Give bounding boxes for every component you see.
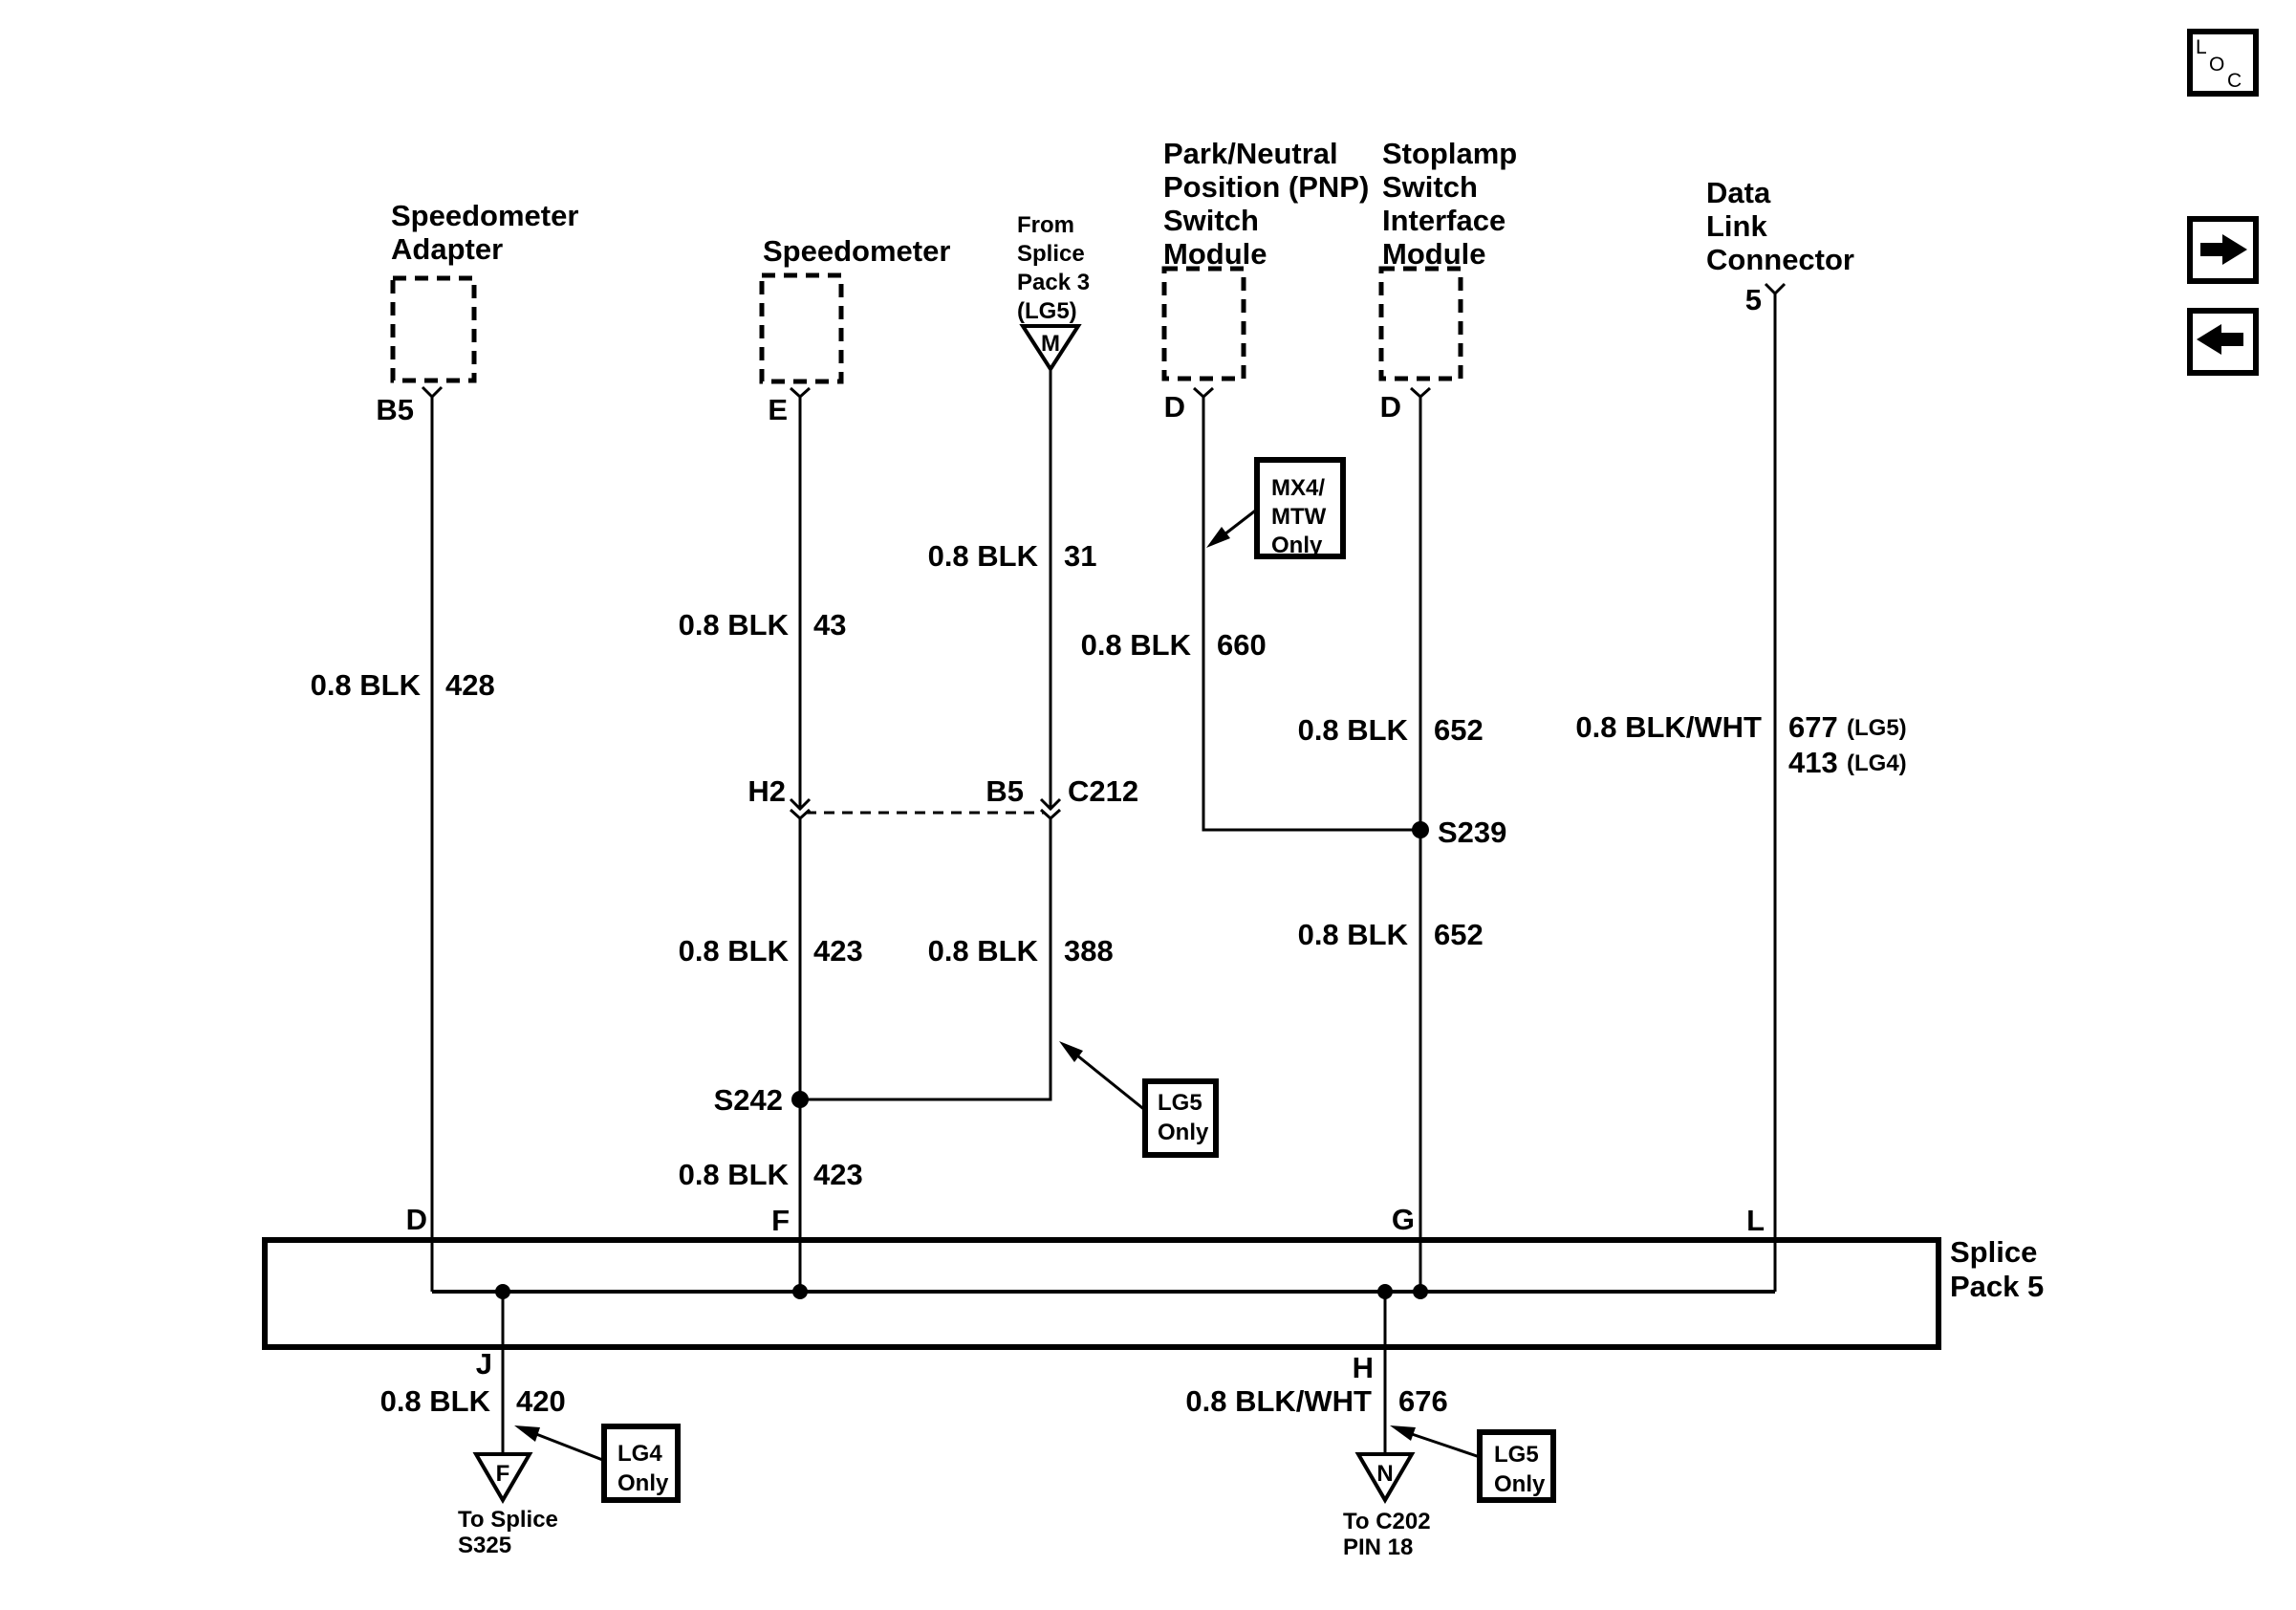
svg-text:Splice: Splice — [1950, 1235, 2037, 1269]
label 0.8 BLK 420 — [380, 1384, 566, 1418]
pin 5 connector Data Link — [1745, 283, 1785, 316]
component label Stoplamp Switch Interface Module — [1382, 137, 1517, 271]
pin D connector Stoplamp — [1380, 388, 1430, 424]
svg-text:F: F — [771, 1204, 790, 1237]
note box LG5 Only middle — [1145, 1081, 1216, 1155]
pin B5 connector — [376, 387, 442, 426]
component label Speedometer Adapter — [391, 199, 578, 266]
wire 677/413 Data Link to Splice Pack L — [1774, 294, 1777, 1292]
splice pack 5 box — [265, 1240, 1939, 1347]
off-page triangle F — [476, 1454, 530, 1500]
svg-text:652: 652 — [1434, 918, 1484, 951]
svg-text:Only: Only — [617, 1470, 669, 1496]
pointer arrow MX4/MTW note to wire 660 — [1206, 509, 1258, 548]
label 0.8 BLK 660 — [1081, 628, 1267, 662]
svg-text:0.8 BLK: 0.8 BLK — [1298, 713, 1409, 747]
svg-text:Module: Module — [1163, 237, 1267, 271]
svg-text:J: J — [476, 1347, 492, 1381]
forward arrow icon — [2190, 219, 2256, 281]
svg-text:N: N — [1376, 1461, 1393, 1487]
svg-text:0.8 BLK: 0.8 BLK — [679, 608, 790, 642]
label From Splice Pack 3 (LG5) — [1017, 212, 1090, 324]
note box LG5 Only bottom — [1480, 1432, 1553, 1500]
splice S239 — [1412, 816, 1506, 849]
pointer arrow LG5 middle note to wire 388 — [1059, 1041, 1146, 1111]
svg-text:D: D — [1380, 390, 1401, 424]
svg-text:Stoplamp: Stoplamp — [1382, 137, 1517, 170]
connector H2 arrowhead — [747, 774, 810, 818]
svg-text:H2: H2 — [747, 774, 786, 808]
svg-text:388: 388 — [1064, 934, 1114, 968]
svg-text:LG4: LG4 — [617, 1441, 662, 1467]
svg-text:B5: B5 — [986, 774, 1024, 808]
svg-text:Link: Link — [1706, 209, 1767, 243]
svg-text:676: 676 — [1398, 1384, 1448, 1418]
svg-text:Only: Only — [1494, 1471, 1546, 1497]
dashed box Stoplamp Switch Interface Module — [1381, 269, 1461, 379]
wire 428 Speedometer Adapter to Splice Pack D — [431, 397, 434, 1292]
svg-text:L: L — [1746, 1204, 1765, 1237]
svg-text:428: 428 — [445, 668, 495, 702]
svg-text:Only: Only — [1158, 1120, 1209, 1145]
svg-text:C: C — [2227, 70, 2242, 92]
svg-text:C212: C212 — [1068, 774, 1138, 808]
label 0.8 BLK 388 — [928, 934, 1114, 968]
svg-text:(LG5): (LG5) — [1017, 298, 1077, 324]
dashed box Speedometer — [762, 275, 841, 381]
wire 423 upper Speedometer H2 to S242 — [799, 818, 802, 1292]
svg-text:Connector: Connector — [1706, 243, 1854, 276]
svg-text:LG5: LG5 — [1494, 1442, 1539, 1468]
svg-text:M: M — [1041, 331, 1060, 357]
note box MX4/MTW Only — [1257, 460, 1343, 558]
svg-text:S242: S242 — [714, 1083, 783, 1117]
label 0.8 BLK 652 lower — [1298, 918, 1484, 951]
component label Data Link Connector — [1706, 176, 1854, 276]
label To C202 PIN 18 — [1343, 1509, 1431, 1560]
svg-text:677: 677 — [1788, 710, 1838, 744]
wire 652 Stoplamp D to Splice Pack G — [1419, 397, 1422, 1292]
svg-text:PIN 18: PIN 18 — [1343, 1534, 1413, 1560]
svg-text:MTW: MTW — [1271, 504, 1327, 530]
svg-text:F: F — [496, 1461, 510, 1487]
svg-text:652: 652 — [1434, 713, 1484, 747]
label 0.8 BLK 423 lower — [679, 1158, 863, 1191]
svg-text:Module: Module — [1382, 237, 1486, 271]
svg-text:S325: S325 — [458, 1533, 511, 1558]
svg-text:0.8 BLK/WHT: 0.8 BLK/WHT — [1575, 710, 1762, 744]
svg-text:0.8 BLK: 0.8 BLK — [928, 934, 1039, 968]
pin D connector PNP — [1164, 388, 1213, 424]
LOC legend box — [2190, 32, 2256, 94]
svg-text:H: H — [1353, 1351, 1374, 1384]
svg-text:0.8 BLK: 0.8 BLK — [1081, 628, 1192, 662]
label 0.8 BLK 428 — [311, 668, 495, 702]
svg-text:423: 423 — [813, 934, 863, 968]
dashed box PNP Switch Module — [1164, 269, 1244, 379]
off-page triangle N — [1358, 1454, 1412, 1500]
svg-text:31: 31 — [1064, 539, 1096, 573]
wire 43 Speedometer E to H2 — [799, 397, 802, 808]
dashed wire H2 to C212 — [806, 812, 1044, 815]
junction dot H on bus — [1377, 1284, 1393, 1299]
svg-text:420: 420 — [516, 1384, 566, 1418]
splice pack 3 triangle M — [1023, 326, 1078, 369]
svg-text:Interface: Interface — [1382, 204, 1505, 237]
svg-text:Position (PNP): Position (PNP) — [1163, 170, 1369, 204]
label Splice Pack 5 — [1950, 1235, 2044, 1303]
wire 676 Splice Pack H to N triangle — [1353, 1292, 1385, 1453]
svg-text:423: 423 — [813, 1158, 863, 1191]
back arrow icon — [2190, 311, 2256, 373]
wire 420 Splice Pack J to F triangle — [476, 1292, 503, 1453]
svg-text:D: D — [406, 1203, 427, 1236]
svg-text:B5: B5 — [376, 393, 414, 426]
label 0.8 BLK/WHT 676 — [1185, 1384, 1447, 1418]
svg-text:Only: Only — [1271, 533, 1323, 558]
svg-text:To C202: To C202 — [1343, 1509, 1431, 1534]
svg-text:43: 43 — [813, 608, 846, 642]
label 0.8 BLK 43 — [679, 608, 847, 642]
svg-text:413: 413 — [1788, 746, 1838, 779]
svg-text:0.8 BLK/WHT: 0.8 BLK/WHT — [1185, 1384, 1372, 1418]
pointer arrow LG4 note to wire 420 — [514, 1425, 605, 1461]
svg-text:0.8 BLK: 0.8 BLK — [928, 539, 1039, 573]
svg-text:660: 660 — [1217, 628, 1267, 662]
wire 388 C212 to S242 — [808, 818, 1051, 1099]
svg-text:0.8 BLK: 0.8 BLK — [679, 1158, 790, 1191]
svg-text:Speedometer: Speedometer — [391, 199, 578, 232]
svg-text:Data: Data — [1706, 176, 1771, 209]
pointer arrow LG5 bottom note to wire 676 — [1390, 1425, 1480, 1457]
splice S242 — [714, 1083, 809, 1117]
svg-text:From: From — [1017, 212, 1074, 238]
svg-text:L: L — [2196, 36, 2207, 58]
component label Park/Neutral Position (PNP) Switch Module — [1163, 137, 1369, 271]
label 0.8 BLK 31 — [928, 539, 1097, 573]
note box LG4 Only — [604, 1426, 678, 1500]
junction dot J on bus — [495, 1284, 510, 1299]
svg-text:O: O — [2209, 54, 2224, 76]
connector B5 C212 arrowhead — [986, 774, 1138, 818]
svg-text:Switch: Switch — [1163, 204, 1259, 237]
junction dot F on bus — [792, 1284, 808, 1299]
svg-text:0.8 BLK: 0.8 BLK — [1298, 918, 1409, 951]
svg-text:Switch: Switch — [1382, 170, 1478, 204]
svg-text:Pack 5: Pack 5 — [1950, 1270, 2044, 1303]
svg-text:0.8 BLK: 0.8 BLK — [679, 934, 790, 968]
svg-text:Park/Neutral: Park/Neutral — [1163, 137, 1338, 170]
svg-text:To Splice: To Splice — [458, 1507, 558, 1533]
svg-text:Pack 3: Pack 3 — [1017, 270, 1090, 295]
wire 660 PNP D to S239 — [1203, 397, 1420, 830]
svg-text:MX4/: MX4/ — [1271, 475, 1325, 501]
svg-text:5: 5 — [1745, 283, 1762, 316]
svg-text:(LG4): (LG4) — [1847, 751, 1907, 776]
svg-text:0.8 BLK: 0.8 BLK — [311, 668, 422, 702]
svg-text:D: D — [1164, 390, 1185, 424]
label To Splice S325 — [458, 1507, 558, 1558]
svg-text:Splice: Splice — [1017, 241, 1085, 267]
svg-text:Speedometer: Speedometer — [763, 234, 950, 268]
svg-text:G: G — [1392, 1203, 1415, 1236]
pin E connector — [768, 388, 810, 426]
label 0.8 BLK 423 upper — [679, 934, 863, 968]
svg-text:LG5: LG5 — [1158, 1090, 1202, 1116]
junction dot G on bus — [1413, 1284, 1428, 1299]
svg-text:0.8 BLK: 0.8 BLK — [380, 1384, 491, 1418]
svg-text:(LG5): (LG5) — [1847, 715, 1907, 741]
label 0.8 BLK 652 upper — [1298, 713, 1484, 747]
svg-text:S239: S239 — [1438, 816, 1506, 849]
svg-text:Adapter: Adapter — [391, 232, 503, 266]
svg-text:E: E — [768, 393, 788, 426]
label 0.8 BLK/WHT 677 (LG5) 413 (LG4) — [1575, 710, 1906, 779]
dashed box Speedometer Adapter — [393, 278, 474, 381]
wire 31 from M to C212 — [1050, 369, 1052, 808]
splice pack bus wire — [432, 1290, 1775, 1294]
